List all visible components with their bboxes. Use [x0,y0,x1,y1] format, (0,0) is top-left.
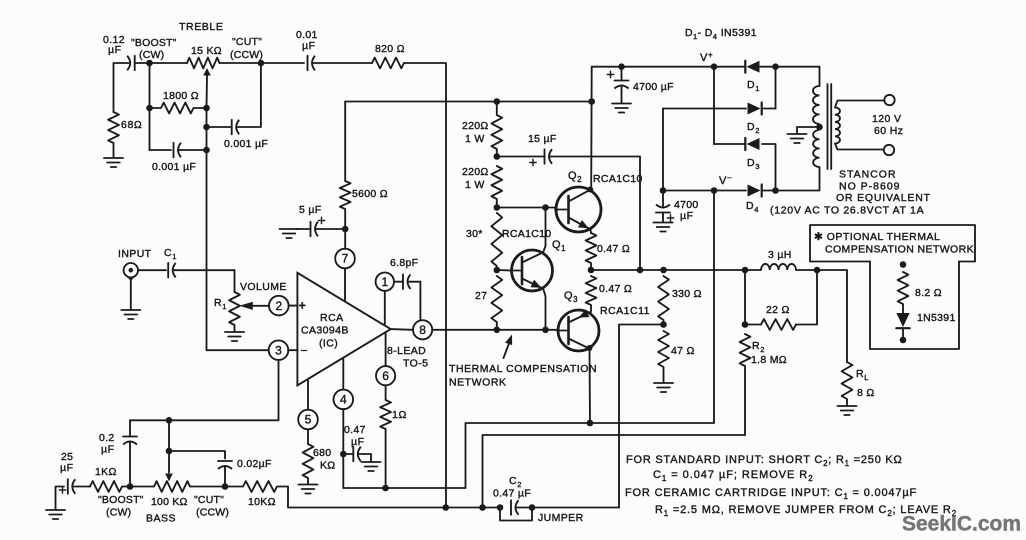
svg-text:SeekIC.com: SeekIC.com [902,513,1021,536]
resistor 1800 ohm [150,103,207,114]
wire 0.47uF to ground [370,454,373,462]
label 10K [248,496,276,508]
node D1 anode junction [772,63,779,70]
svg-text:1N5391: 1N5391 [917,312,956,324]
wire 0.02 branch lead [169,451,225,459]
capacitor 0.47uF pin4 [343,447,370,462]
svg-text:✱ OPTIONAL THERMAL: ✱ OPTIONAL THERMAL [814,231,940,243]
label Q2 [568,170,582,184]
node feedback at C2 rail [479,504,486,511]
terminal 120V bottom [884,145,894,155]
label 820 ohm [375,43,405,55]
resistor 0.47 ohm upper [586,233,597,270]
node Q1 collector junction [542,204,549,211]
svg-text:COMPENSATION NETWORK: COMPENSATION NETWORK [825,244,974,256]
node bus at V+ vertical [588,98,595,105]
note line 1 [626,454,903,468]
wire 15K pot to cut junction [220,62,261,64]
svg-text:1800 Ω: 1800 Ω [163,90,199,102]
svg-text:µF: µF [60,462,74,474]
svg-text:1KΩ: 1KΩ [95,466,117,478]
treble pot wiper arrow [203,68,211,108]
svg-text:3 µH: 3 µH [768,249,792,261]
label 22 ohm [766,304,790,316]
capacitor 4700uF lower [656,191,674,223]
node pin4 cap junction [340,451,347,458]
watermark SeekIC.com [902,513,1021,536]
transformer primary lower winding [813,130,819,167]
node emitters junction [588,267,595,274]
node 1800 right on wiper line [203,105,210,112]
node bass boost junction [127,483,134,490]
svg-text:(CCW): (CCW) [230,49,263,61]
label 6.8pF [390,257,418,269]
wire 10K to bottom rail [288,487,499,508]
pin 1 circle [376,273,394,325]
wire D2 cathode to vertical [763,108,776,110]
wire 3uH left lead [745,269,761,271]
svg-text:820 Ω: 820 Ω [375,43,405,55]
resistor 0.47 ohm lower [586,276,597,312]
svg-text:0.001 µF: 0.001 µF [152,161,196,173]
svg-text:0.2: 0.2 [99,432,115,444]
capacitor C1 [168,263,234,278]
node 15uF bottom [637,267,644,274]
label STANCOR [839,169,897,181]
label 0.47 cap value [344,424,366,436]
label TO-5 [403,358,428,370]
svg-text:0.02µF: 0.02µF [237,458,272,470]
pin 4 circle [334,358,354,454]
svg-text:680: 680 [313,447,331,459]
label 5600 ohm [352,188,388,200]
wire xfmr bottom lead [776,167,820,191]
node R2 top [742,321,749,328]
ground below 68 ohm [104,158,123,167]
label 15 uF [528,133,557,145]
node optional top [900,261,907,268]
diode D1 [745,61,759,73]
label 15 KOhm [191,45,222,57]
svg-text:NETWORK: NETWORK [449,377,507,389]
resistor 30* thermal [491,213,502,270]
node V- at Q3 collector branch [711,187,718,194]
svg-text:KΩ: KΩ [320,460,335,472]
svg-text:FOR STANDARD INPUT: SHORT C2;: FOR STANDARD INPUT: SHORT C2; R1 =250 KΩ [626,454,903,468]
transformer secondary winding [835,108,840,144]
resistor 680K [303,444,314,484]
label 0.12 value [103,34,125,46]
label Q2 type RCA1C10 [593,173,643,185]
svg-text:"CUT": "CUT" [194,494,224,506]
wire R2 bottom feedback [483,435,746,508]
label 30* [466,228,483,240]
svg-text:FOR CERAMIC CARTRIDGE INPUT: C: FOR CERAMIC CARTRIDGE INPUT: C1 = 0.0047… [625,487,917,501]
label OR EQUIVALENT [836,192,931,204]
label 100K [151,496,188,508]
svg-text:1: 1 [381,275,388,289]
label 0.12 uF unit [108,44,122,56]
ground below 47 ohm [654,383,673,392]
label 0.01 uF unit [302,40,316,52]
label C2 value [493,488,531,500]
label THERMAL COMPENSATION [449,363,597,375]
label CW bass [106,507,131,519]
ground at center tap [788,134,807,143]
svg-text:OR EQUIVALENT: OR EQUIVALENT [836,192,931,204]
svg-text:1 W: 1 W [465,179,485,191]
svg-text:µF: µF [680,210,694,222]
svg-text:8.2 Ω: 8.2 Ω [915,287,942,299]
svg-text:6.8pF: 6.8pF [390,257,418,269]
label RL [856,368,869,382]
wire D1 junction to xfmr top [760,67,820,86]
resistor 820 ohm [372,58,404,69]
capacitor 0.12uF [127,56,149,71]
node treble boost junction [146,60,153,67]
label RCA [320,312,344,324]
node V+ at D3 branch [711,63,718,70]
wire IN5391 to bottom node [902,329,904,337]
label 68 ohm [121,119,142,131]
potentiometer 100K bass [154,481,190,492]
svg-text:1 W: 1 W [465,133,485,145]
svg-text:"BOOST": "BOOST" [131,37,177,49]
node bass top junction [166,417,173,424]
diode D2 [748,103,762,115]
node C2 right [529,504,536,511]
svg-text:0.001 µF: 0.001 µF [224,138,268,150]
wire Q3 collector lead [589,349,592,424]
svg-text:VOLUME: VOLUME [240,281,287,293]
label CCW treble [230,49,263,61]
resistor 220 ohm 1W upper [491,102,502,157]
wire V+ vertical to Q2 collector [590,67,593,189]
note line 3 [625,487,917,501]
capacitor 15uF [497,149,640,165]
resistor RL 8 ohm [842,362,853,406]
resistor 1 ohm [380,385,391,488]
label 0.001 uF upper [224,138,268,150]
wire 25uF to ground [56,487,65,510]
R1 wiper arrow [239,302,269,310]
ground at 25uF [46,510,65,519]
wire 3uH node down [744,270,746,325]
op-amp U1 triangle [297,273,390,386]
label COMPENSATION NETWORK [825,244,974,256]
wire D2 anode from left rail [663,108,746,110]
label BOOST (CW) treble [131,37,177,49]
svg-text:68Ω: 68Ω [121,119,142,131]
svg-text:STANCOR: STANCOR [839,169,897,181]
transistor Q2 [555,187,601,232]
svg-text:120 V: 120 V [872,113,901,125]
node 27 ohm bottom [494,327,501,334]
wire secondary bottom lead [835,144,884,150]
label 0.2 unit [101,444,115,456]
wire cut junction to 0.01uF [261,62,304,64]
svg-text:15 KΩ: 15 KΩ [191,45,222,57]
svg-text:RCA1C11: RCA1C11 [600,305,650,317]
node optional bottom [900,337,907,344]
wire Q1 collector vertical [543,208,545,253]
wire boost junction to 15K pot [150,62,188,64]
svg-text:RCA: RCA [320,312,344,324]
label 0.2 value [99,432,115,444]
svg-text:TREBLE: TREBLE [179,21,223,33]
label 1800 ohm [163,90,199,102]
svg-text:1.8 MΩ: 1.8 MΩ [751,354,787,366]
wire pin4 to V- bus [343,423,590,488]
node V+ at 4700uF [618,63,625,70]
svg-text:(IC): (IC) [319,338,338,350]
svg-text:2: 2 [275,299,282,313]
wire 820 ohm to right vertical [404,63,446,508]
svg-text:D1: D1 [747,79,760,93]
input jack [124,263,138,310]
node Q2 collector at circle [587,187,593,193]
label R2 [752,340,765,354]
node treble cut junction [258,60,265,67]
transformer core [828,84,832,169]
label 8.2 ohm [915,287,942,299]
svg-text:BASS: BASS [146,513,176,525]
ground below 4700uF lower [654,223,673,232]
svg-text:0.47 µF: 0.47 µF [493,488,531,500]
node 3uH left [742,267,749,274]
svg-text:RCA1C10: RCA1C10 [502,228,551,240]
wire 0.12uF left to 68-ohm top [114,63,129,112]
svg-text:R1: R1 [214,297,227,311]
wire V- left vertical [662,109,664,191]
svg-text:JUMPER: JUMPER [538,512,584,524]
ground below R1 [225,332,244,341]
resistor 1K [90,481,130,492]
pin 6 circle [376,333,395,385]
capacitor 0.01uF [308,56,373,71]
svg-text:8-LEAD: 8-LEAD [387,345,426,357]
label OPTIONAL THERMAL [814,231,940,243]
node 0.02 branch [166,448,173,455]
label 25 unit [60,462,74,474]
wire V- to output stage [590,191,714,424]
node 1 ohm bottom [382,485,389,492]
label R1 [214,297,227,311]
capacitor 6.8pF [394,274,420,289]
label 0.02uF [237,458,272,470]
svg-text:1Ω: 1Ω [392,409,407,421]
ground at 5uF [280,229,299,238]
svg-text:THERMAL COMPENSATION: THERMAL COMPENSATION [449,363,597,375]
wire treble wiper vertical to pin 3 [207,108,269,350]
capacitor 5uF [296,217,345,236]
label Q3 type RCA1C11 [600,305,650,317]
resistor 10K [225,481,288,492]
wire output to RL [817,270,847,362]
svg-text:Q1: Q1 [552,239,566,253]
pin 3 circle [269,340,289,360]
label C1 [164,247,177,261]
label BASS [146,513,176,525]
resistor R2 1.8M [740,334,751,435]
label 5 uF [299,204,321,216]
label 27 [475,290,487,302]
wire Q2 emitter lead [589,229,592,234]
label TREBLE [179,21,223,33]
svg-text:7: 7 [342,252,349,266]
svg-text:0.47: 0.47 [344,424,366,436]
wire 22 left lead [745,324,761,326]
svg-text:D4: D4 [746,200,759,214]
node bus at 220 ohm top [494,98,501,105]
label 0.47 lower [599,283,632,295]
label D1-D4 IN5391 [685,27,757,41]
optional network box outline [810,225,975,349]
diode IN5391 [896,313,909,328]
label KOhm 680 [320,460,335,472]
diode D4 [748,185,762,197]
svg-text:3: 3 [275,343,282,357]
wire pin3 down to bass node [130,360,279,421]
label 25 value [61,451,73,463]
wire V+ to D3 vertical [713,67,715,144]
capacitor 25uF [59,479,90,494]
wire 15uF right vertical [639,157,641,271]
node Q2 base junction [494,204,501,211]
node Q3 collector to V- wire [587,420,594,427]
svg-text:220Ω: 220Ω [462,120,489,132]
label 4700uF upper [633,81,674,93]
capacitor 0.001uF lower [174,143,207,158]
wire 0.001uF upper to cut vertical [248,63,261,127]
pin 5 circle [298,379,318,444]
svg-text:NO P-8609: NO P-8609 [839,181,901,193]
node rail at 446 [443,504,450,511]
svg-text:RCA1C10: RCA1C10 [593,173,643,185]
wire Q2 base [497,207,556,209]
svg-text:100 KΩ: 100 KΩ [151,496,188,508]
label uF lower [680,210,694,222]
node D4 cathode junction [772,187,779,194]
node V- at 4700uF lower [660,187,667,194]
label V+ [700,51,713,65]
note line 2 [653,469,814,483]
wire V+ rail [592,66,744,68]
svg-text:27: 27 [475,290,487,302]
resistor 68 ohm [108,112,119,157]
svg-text:47 Ω: 47 Ω [671,345,695,357]
svg-text:60 Hz: 60 Hz [874,125,903,137]
resistor 8.2 ohm [898,272,909,313]
label D2 [747,121,760,135]
svg-text:4700 µF: 4700 µF [633,81,674,93]
svg-text:D1- D4 IN5391: D1- D4 IN5391 [685,27,757,41]
opamp minus sign [301,344,309,358]
node 330 ohm top [660,267,667,274]
label C2 [509,475,522,489]
svg-text:µF: µF [108,44,122,56]
label D1 [747,79,760,93]
capacitor 0.001uF upper [207,120,249,135]
capacitor 0.02uF [218,461,232,487]
node Q3 base junction [542,327,549,334]
ground below 4700uF upper [612,104,631,113]
wire input jack to C1 [138,269,166,271]
label 8 ohm [857,387,875,399]
svg-text:−: − [301,344,309,358]
potentiometer 15K treble [187,58,220,69]
resistor 22 ohm [761,319,796,330]
label 1W lower [465,179,485,191]
svg-text:6: 6 [382,369,389,383]
svg-text:Q3: Q3 [564,290,578,304]
svg-text:0.47 Ω: 0.47 Ω [599,283,632,295]
capacitor 0.2uF [123,420,137,486]
opamp plus sign [299,299,307,313]
ground below input jack [121,310,140,319]
ground below 0.47uF [362,462,381,471]
label V- [719,174,732,188]
svg-text:330 Ω: 330 Ω [672,288,702,300]
resistor 330 ohm [658,276,669,325]
svg-text:(120V AC TO 26.8VCT AT 1A: (120V AC TO 26.8VCT AT 1A [770,205,924,217]
label 220 ohm upper [462,120,489,132]
svg-text:R2: R2 [752,340,765,354]
node bass cut junction [222,483,229,490]
wire D1 to D2 vertical [775,67,777,109]
label RCA1C10 thermal [502,228,551,240]
svg-text:INPUT: INPUT [118,248,152,260]
label Q3 [564,290,578,304]
svg-text:4: 4 [340,393,347,407]
wire V- rail [663,190,746,192]
label 3uH [768,249,792,261]
node 5uF junction [342,226,349,233]
svg-text:Q2: Q2 [568,170,582,184]
svg-text:5: 5 [305,413,312,427]
svg-text:(CW): (CW) [106,507,131,519]
svg-text:10KΩ: 10KΩ [248,496,276,508]
node 0.001uF lower right [203,147,210,154]
pin 8 circle [413,320,432,339]
svg-text:TO-5: TO-5 [403,358,428,370]
label VOLUME [240,281,287,293]
label 120 V [872,113,901,125]
wire divider to C2 vertical [619,325,664,508]
node Q1 base junction [494,267,501,274]
svg-text:8: 8 [419,323,426,337]
label (IC) [319,338,338,350]
pin 2 circle [269,296,289,316]
svg-text:D3: D3 [747,157,760,171]
wire D3 cathode lead [714,143,745,145]
wire feedback bus y102 [345,101,592,103]
bass pot wiper arrow [165,474,173,482]
ground below RL [838,406,857,415]
wire C1 to R1 top [234,270,236,292]
label 47 ohm [671,345,695,357]
label 330 ohm [672,288,702,300]
diode D3 [745,138,759,150]
wire 6.8pF to pin 8 [419,282,421,320]
resistor 5600 ohm [340,181,351,229]
svg-text:(CCW): (CCW) [196,507,229,519]
inductor 3uH [761,264,796,270]
wire bass wiper stem [168,420,170,472]
wire Q1 emitter vertical [543,289,545,330]
svg-text:+: + [299,299,307,313]
ground below 680K [299,485,318,494]
